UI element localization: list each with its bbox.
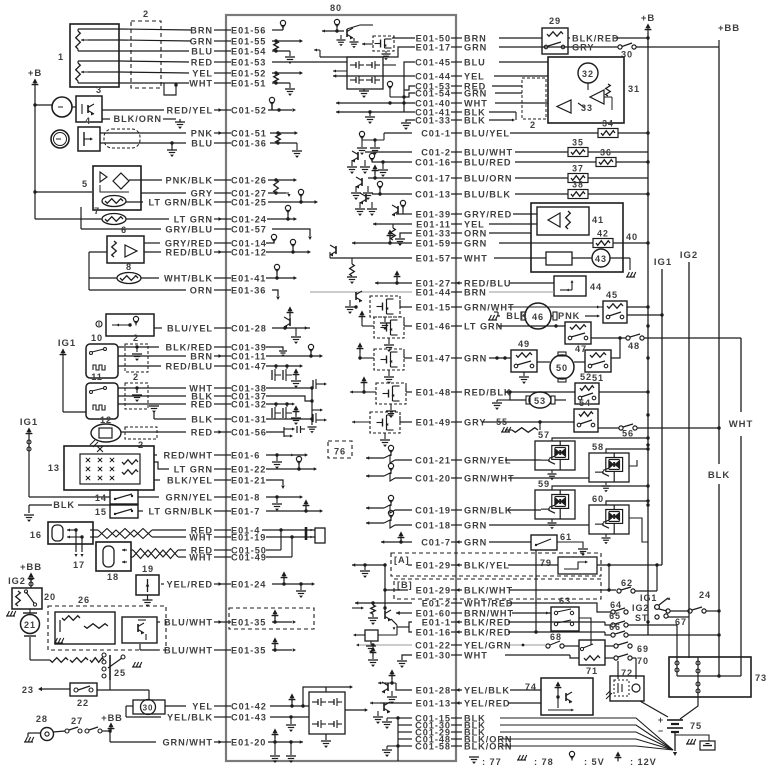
svg-text:31: 31: [628, 84, 640, 94]
wire C01-22 inner: [358, 644, 412, 646]
wire C01-25 inner: [268, 201, 315, 203]
5V C01-27: [268, 192, 286, 194]
wire pot1 rows: [78, 28, 119, 30]
svg-text:57: 57: [538, 430, 550, 440]
unit in 26 left: [55, 612, 115, 644]
legend 12V: [615, 751, 620, 756]
wire GRY/BLU: [81, 228, 161, 230]
svg-text:C01-31: C01-31: [231, 414, 267, 424]
5V C01-14: [266, 242, 274, 243]
svg-text:BLK/YEL: BLK/YEL: [167, 475, 213, 485]
svg-text:IG2: IG2: [8, 576, 26, 586]
svg-text:WHT: WHT: [189, 532, 213, 542]
svg-text:2: 2: [133, 333, 139, 343]
svg-text:LT GRN: LT GRN: [464, 321, 503, 331]
potentiometer 1a: [76, 31, 81, 49]
wire BLU/WHT (2nd): [140, 649, 159, 651]
5V E01-41: [266, 277, 294, 279]
mosfets in quad top: [350, 64, 356, 66]
wires BLK converge: [500, 718, 673, 750]
wire WHT (18): [131, 556, 133, 558]
resistor 35: [515, 151, 568, 153]
wire C01-42 inner: [270, 705, 309, 707]
wire E01-1 row right: [508, 621, 605, 623]
twisted pair 18: [133, 550, 178, 559]
wire GRN/WHT 58: [508, 477, 589, 479]
wire 54-57 link: [610, 432, 612, 447]
svg-text:E01-29: E01-29: [416, 560, 451, 570]
svg-text:C01-58: C01-58: [415, 741, 451, 751]
svg-text:60: 60: [592, 494, 604, 504]
resistor 34: [510, 132, 598, 134]
wire 79 out: [597, 564, 662, 566]
svg-text:72: 72: [621, 668, 633, 678]
wire GRN/BLK 59: [508, 509, 541, 511]
wire +B vertical: [34, 88, 36, 219]
wire C01-54 inner: [404, 93, 415, 97]
boxed ground: [700, 741, 715, 750]
cluster C01-16: [372, 161, 412, 163]
svg-text:C01-26: C01-26: [231, 175, 267, 185]
wires 17: [75, 530, 77, 552]
unit 31 box: [548, 57, 624, 123]
ignition pivot: [655, 605, 660, 610]
cluster E01-28: [396, 683, 412, 690]
svg-text:+B: +B: [28, 68, 42, 79]
svg-text:BLK: BLK: [464, 115, 486, 125]
camshaft sensor 3 box: [76, 96, 102, 122]
wire RED (18): [131, 549, 133, 551]
resistor 42: [499, 242, 593, 244]
svg-text:37: 37: [572, 164, 584, 174]
relay 47 box: [565, 322, 591, 344]
svg-text:24: 24: [699, 590, 711, 600]
unit 41 box: [537, 207, 589, 235]
svg-text:: 78: : 78: [534, 757, 554, 767]
svg-text:: 12V: : 12V: [630, 757, 657, 767]
wire RED/WHT: [154, 454, 157, 456]
svg-text:ORN: ORN: [464, 228, 487, 238]
wire YEL/RED (19): [161, 583, 164, 585]
svg-text:C01-56: C01-56: [231, 427, 267, 437]
svg-text:E01-33: E01-33: [416, 228, 451, 238]
svg-text:C01-19: C01-19: [415, 505, 451, 515]
wire BLK/WHT row: [510, 589, 616, 591]
wire 57 top: [575, 434, 585, 447]
svg-text:WHT: WHT: [464, 253, 488, 263]
wire GRN/YEL row: [29, 496, 110, 498]
motor 32: [578, 63, 598, 83]
cluster C01-18: [366, 522, 384, 524]
motor 53: [529, 392, 551, 408]
chassis 25: [132, 666, 141, 668]
wire WHT (16): [90, 536, 98, 538]
svg-text:E01-39: E01-39: [416, 209, 451, 219]
res E01-55/54: [272, 40, 300, 42]
svg-text:RED/YEL: RED/YEL: [167, 105, 213, 115]
wire RED 31: [492, 85, 522, 87]
unit 16 box: [48, 522, 93, 544]
wire E01-44 inner: [310, 291, 412, 293]
cluster C01-28: [272, 327, 310, 329]
svg-text:YEL/BLK: YEL/BLK: [167, 712, 213, 722]
wire battery stem: [674, 733, 676, 751]
wire 47 out: [591, 337, 626, 339]
svg-text:GRN: GRN: [464, 353, 487, 363]
res E01-52/51: [272, 72, 300, 74]
wire LT GRN 47: [498, 325, 565, 327]
svg-text:23: 23: [22, 685, 34, 695]
ground 49: [523, 372, 525, 376]
wire GRN 31: [495, 92, 522, 94]
svg-text:E01-51: E01-51: [231, 78, 266, 88]
wire GRN/YEL out: [138, 496, 159, 498]
unit 72 box: [610, 676, 644, 701]
wire BRN to 29: [499, 37, 542, 39]
svg-text:E01-49: E01-49: [416, 417, 451, 427]
svg-text:29: 29: [549, 16, 561, 26]
filter box E01-4: [315, 528, 325, 543]
bus +BB/BLK vertical: [718, 40, 720, 48]
connector 2 dashed box: [131, 21, 161, 88]
svg-text:GRY: GRY: [572, 42, 594, 52]
igniter 60: [589, 505, 629, 534]
trunk C01-15..58: [397, 718, 399, 761]
svg-text:+B: +B: [641, 13, 655, 24]
wire WHT 43: [494, 257, 546, 259]
svg-text:26: 26: [78, 595, 90, 605]
wire C01-41 inner: [336, 111, 415, 113]
ground 19: [147, 595, 149, 600]
svg-text:8: 8: [126, 262, 132, 272]
cluster E01-48: [406, 391, 412, 393]
svg-text:C01-1: C01-1: [421, 128, 451, 138]
inside 11: [92, 388, 104, 391]
svg-text:C01-7: C01-7: [421, 537, 451, 547]
wire RED/BLU 44: [510, 282, 554, 284]
sensor 30 circle (left): [133, 700, 165, 714]
igniter 58: [589, 453, 629, 482]
unit 40 box: [531, 203, 623, 272]
svg-text:E01-30: E01-30: [416, 650, 451, 660]
wire 51 up: [611, 338, 620, 358]
svg-text:C01-44: C01-44: [415, 71, 451, 81]
wire BRN/WHT 63: [512, 612, 551, 614]
svg-text:IG2: IG2: [680, 250, 698, 261]
wire quad top hook: [303, 687, 350, 706]
wire YEL/RED 74: [508, 702, 541, 704]
cluster C01-19: [366, 507, 384, 509]
wire C01-40 inner: [336, 102, 415, 104]
svg-text:12: 12: [100, 415, 112, 425]
svg-text:13: 13: [48, 463, 60, 473]
transistor unit 26: [122, 617, 157, 643]
5V quad: [387, 81, 392, 86]
wire comp6 down: [89, 251, 107, 253]
wires comp11: [118, 387, 186, 389]
svg-text:−: −: [658, 726, 664, 736]
cluster E01-35b: [272, 649, 292, 651]
svg-text:52: 52: [580, 372, 592, 382]
svg-text:BLU/RED: BLU/RED: [464, 157, 511, 167]
wire WHT/RED row: [508, 603, 611, 612]
wire GRN/YEL 57: [505, 459, 541, 461]
svg-text:E01-59: E01-59: [416, 238, 451, 248]
svg-text:C01-20: C01-20: [415, 473, 451, 483]
svg-text:BLK/RED: BLK/RED: [464, 627, 511, 637]
svg-text:IG1: IG1: [640, 593, 657, 603]
svg-text:GRN/WHT: GRN/WHT: [162, 737, 213, 747]
motor 21: [21, 615, 40, 634]
svg-text:E01-36: E01-36: [231, 285, 266, 295]
wire BLK/RED from 29: [568, 37, 570, 39]
svg-text:BLU/BLK: BLU/BLK: [464, 189, 511, 199]
unit 63 box: [551, 607, 579, 631]
wire C01-36 inner: [270, 142, 297, 144]
svg-text:YEL: YEL: [192, 701, 213, 711]
svg-text:RED/WHT: RED/WHT: [163, 450, 213, 460]
wire GRY label: [590, 46, 594, 48]
resistor in 6: [112, 241, 117, 257]
unit 9 box: [106, 314, 154, 336]
dashed box 2 (31): [522, 78, 546, 119]
cluster C01-2: [365, 151, 412, 153]
wire BLK/YEL: [154, 479, 160, 481]
svg-text:YEL/BLK: YEL/BLK: [464, 685, 510, 695]
wire PNK: [100, 132, 186, 134]
cluster E01-24: [272, 583, 312, 585]
inner 13 box: [80, 454, 140, 484]
wire IG1 chain: [28, 437, 30, 497]
driver 41: [548, 213, 560, 227]
svg-text:YEL: YEL: [464, 71, 485, 81]
svg-text:BLU: BLU: [464, 57, 486, 67]
svg-text:+BB: +BB: [718, 23, 740, 34]
svg-text:16: 16: [30, 530, 42, 540]
svg-text:PNK/BLK: PNK/BLK: [166, 175, 213, 185]
sensor 3 circle: [52, 97, 72, 117]
relay 45 box: [603, 301, 627, 323]
switch 15 box: [110, 505, 138, 518]
inside 9: [112, 324, 130, 326]
diode box 79: [558, 557, 597, 574]
svg-text:75: 75: [690, 721, 702, 731]
relay 52 box: [575, 383, 599, 404]
cluster E01-49: [400, 421, 412, 423]
5V C01-52: [268, 109, 292, 111]
wire E01-54 inner: [272, 50, 290, 52]
mos C01-31: [266, 418, 312, 420]
svg-text:BLK/WHT: BLK/WHT: [464, 585, 513, 595]
svg-text:64: 64: [610, 600, 622, 610]
svg-text:63: 63: [559, 596, 571, 606]
wire GRN 61: [489, 541, 531, 543]
svg-text:33: 33: [581, 103, 593, 113]
svg-text:E01-8: E01-8: [231, 492, 260, 502]
svg-text:54: 54: [579, 398, 591, 408]
ignition blade wire: [659, 609, 667, 611]
label 9: [96, 321, 102, 327]
svg-text:GRN/YEL: GRN/YEL: [166, 492, 214, 502]
knock sensor 12: [91, 424, 121, 442]
wire C01-11 inner: [266, 355, 320, 357]
wire 52 out: [599, 391, 648, 393]
switch 14 box: [110, 490, 138, 504]
wire RED/BLK 52: [505, 391, 575, 393]
wire RED (12): [121, 431, 186, 433]
svg-text:5: 5: [82, 179, 88, 189]
wires comp10: [118, 346, 159, 348]
wire rows comp1 to labels: [119, 29, 191, 30]
svg-text:51: 51: [592, 373, 604, 383]
wire GRN 60: [489, 524, 589, 526]
svg-text:C01-43: C01-43: [231, 712, 267, 722]
wire 21 down: [29, 637, 31, 660]
5V ref top: [334, 19, 339, 24]
cluster C01-20: [366, 475, 384, 477]
unit 74 box: [541, 678, 593, 715]
wire BLU 31: [499, 61, 548, 63]
svg-text:RED: RED: [191, 399, 213, 409]
svg-text:YEL/RED: YEL/RED: [464, 698, 510, 708]
svg-text:ST: ST: [635, 613, 648, 623]
relay 51 box: [585, 350, 611, 372]
svg-text:+BB: +BB: [101, 713, 123, 723]
cluster E01-57: [330, 257, 412, 259]
svg-text:40: 40: [626, 232, 638, 242]
svg-text:IG1: IG1: [58, 338, 76, 349]
wire LT GRN/BLK: [126, 201, 143, 203]
svg-text:WHT: WHT: [464, 650, 488, 660]
wire C01-44 inner: [333, 75, 415, 77]
cluster E01-35a: [272, 621, 292, 623]
dashed box E01-35: [229, 608, 314, 629]
wire quad right: [345, 709, 365, 711]
wire WHT 31: [495, 102, 548, 104]
wire 73 feeds: [676, 625, 678, 657]
svg-text:50: 50: [556, 363, 568, 373]
wire GRY: [141, 192, 186, 194]
svg-text:36: 36: [600, 148, 612, 158]
motor 46: [525, 303, 551, 329]
ignition coil 28: [41, 728, 54, 741]
svg-text:C01-47: C01-47: [231, 361, 267, 371]
svg-text:GRN: GRN: [464, 520, 487, 530]
svg-text:E01-2: E01-2: [422, 598, 451, 608]
svg-text:E01-13: E01-13: [416, 698, 451, 708]
svg-text:C01-2: C01-2: [421, 147, 451, 157]
svg-text:C01-21: C01-21: [415, 455, 451, 465]
svg-text:BLK: BLK: [53, 500, 75, 510]
bus WHT: [740, 338, 742, 412]
twisted pair 16: [98, 530, 152, 539]
cluster E01-7: [266, 510, 320, 512]
svg-text:21: 21: [24, 620, 36, 630]
chassis 20: [6, 615, 15, 617]
svg-text:BRN: BRN: [464, 287, 487, 297]
svg-text:C01-57: C01-57: [231, 224, 267, 234]
svg-text:BRN: BRN: [190, 351, 213, 361]
svg-text:27: 27: [71, 716, 83, 726]
svg-text:ORN: ORN: [190, 285, 213, 295]
cluster E01-33: [400, 233, 412, 238]
svg-text:E01-6: E01-6: [231, 450, 260, 460]
svg-text:C01-45: C01-45: [415, 57, 451, 67]
svg-text:PNK: PNK: [191, 128, 213, 138]
svg-text:+: +: [658, 715, 664, 725]
wire C01-33 inner: [406, 120, 415, 122]
wire 60 down: [606, 501, 648, 505]
svg-text:C01-42: C01-42: [231, 701, 267, 711]
wire 73 to battery: [680, 697, 698, 719]
cluster E01-13: [380, 702, 412, 704]
wire C01-53 inner: [404, 86, 415, 90]
svg-text:43: 43: [595, 254, 607, 264]
connector 2 dashed (comp10): [125, 344, 148, 372]
relay 54 box: [574, 409, 598, 432]
wire YEL/BLK: [125, 706, 127, 717]
ground 53: [503, 399, 510, 401]
switch 48: [626, 336, 630, 340]
svg-text:LT GRN: LT GRN: [174, 214, 213, 224]
svg-text:53: 53: [534, 396, 546, 406]
unit 6 box: [107, 236, 144, 263]
svg-text:80: 80: [330, 3, 342, 13]
ground E01-29: [352, 564, 385, 566]
svg-text:GRN: GRN: [464, 42, 487, 52]
chassis 28: [28, 732, 40, 734]
svg-text:E01-53: E01-53: [231, 57, 266, 67]
svg-text:E01-35: E01-35: [231, 645, 266, 655]
cluster E01-15: [400, 306, 412, 308]
coil 18: [103, 546, 114, 567]
svg-text:25: 25: [114, 668, 126, 678]
svg-text:68: 68: [550, 632, 562, 642]
svg-text:59: 59: [538, 479, 550, 489]
wire +BB drop: [30, 582, 32, 588]
svg-text:61: 61: [560, 532, 572, 542]
svg-text:71: 71: [586, 666, 598, 676]
svg-text:WHT: WHT: [189, 78, 213, 88]
wire BRN 44: [489, 291, 554, 293]
svg-text:38: 38: [572, 180, 584, 190]
svg-text:70: 70: [637, 656, 649, 666]
cluster E01-47: [404, 357, 412, 359]
svg-text:56: 56: [622, 429, 634, 439]
svg-text:E01-57: E01-57: [416, 253, 451, 263]
cluster C01-1: [384, 132, 412, 134]
contacts 25: [102, 653, 106, 657]
switch 61 box: [531, 535, 557, 550]
svg-text:2: 2: [138, 440, 144, 450]
svg-text:IG1: IG1: [20, 417, 38, 428]
legend 5V: [569, 751, 574, 756]
svg-text:BLU/WHT: BLU/WHT: [164, 617, 213, 627]
svg-text:48: 48: [628, 341, 640, 351]
inside 10: [92, 349, 104, 352]
svg-text:6: 6: [121, 225, 127, 235]
wire BLK/YEL 79: [508, 564, 558, 566]
igniter 57: [535, 441, 575, 470]
sensor unit 1 box: [70, 24, 119, 87]
coil 26: [62, 616, 80, 621]
switch 22 box: [70, 683, 97, 696]
svg-text:GRN/WHT: GRN/WHT: [464, 473, 515, 483]
svg-text:19: 19: [142, 564, 154, 574]
cluster E01-59: [352, 242, 412, 244]
svg-text:RED: RED: [191, 57, 213, 67]
relay 26 dashed box: [48, 606, 166, 650]
